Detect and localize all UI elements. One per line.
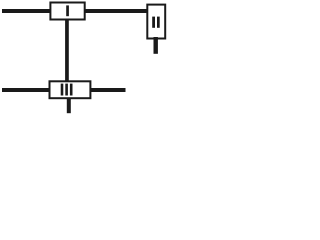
wire: bottom horizontal net [2,88,126,92]
resistor I (horizontal box) [50,3,84,20]
wire: vertical segment from resistor I down to resistor III [65,17,69,83]
wire: stub below resistor II [154,37,158,54]
resistor II (vertical box, top right) [147,5,165,39]
label II (inside resistor II) [152,17,160,28]
resistor III (horizontal box, bottom) [50,81,91,98]
wire: top horizontal net [2,9,149,13]
label I (inside resistor I) [66,5,69,16]
label III (inside resistor III) [61,84,73,96]
wire: stub below resistor III [67,98,71,113]
